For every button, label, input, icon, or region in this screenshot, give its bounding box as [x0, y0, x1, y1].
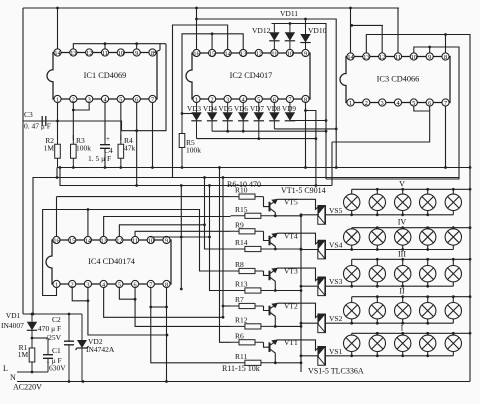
wire IC3 pin 9 stub [429, 47, 431, 53]
label VD1 part [1, 321, 24, 330]
lamp HIII1 [344, 266, 360, 282]
svg-text:VS5: VS5 [329, 206, 343, 215]
junction pin1 net C3 [56, 120, 59, 123]
label VD11 [280, 9, 298, 18]
junction lamp top bus [401, 226, 404, 229]
IC3 CD4066 quad switch [340, 53, 450, 107]
svg-text:11: 11 [132, 237, 138, 244]
wire VD8 bus [274, 128, 336, 130]
junction pin8 branch [304, 109, 307, 112]
svg-text:R6: R6 [235, 331, 244, 340]
wire lamp stub bottom [376, 211, 378, 215]
triac VS3 TLC336A [318, 277, 325, 296]
svg-text:VT1-5 C9014: VT1-5 C9014 [281, 186, 326, 195]
svg-text:1: 1 [349, 100, 352, 107]
junction lamp bottom bus [401, 322, 404, 325]
svg-text:470 μ F: 470 μ F [38, 324, 61, 333]
wire lamp stub bottom [452, 282, 454, 286]
label R15 [235, 205, 248, 214]
wire IC4 pin13 to R15 [104, 217, 231, 237]
wire lamp stub bottom [351, 319, 353, 323]
wire VS5 waist to common [301, 214, 319, 216]
svg-text:IC3 CD4066: IC3 CD4066 [377, 75, 420, 84]
label VS4 [329, 241, 343, 250]
svg-text:14: 14 [54, 50, 60, 57]
svg-text:13: 13 [363, 54, 369, 61]
wire tie extension [160, 43, 166, 45]
label VD1 [6, 311, 21, 320]
junction VD1 rail [31, 313, 34, 316]
wire row II top bus [352, 296, 470, 298]
diode VD11 [285, 24, 295, 50]
label VD4 [203, 105, 217, 113]
transistor VT5 C9014 [270, 199, 279, 213]
label R11 [235, 352, 247, 361]
label C2 voltage [46, 333, 62, 342]
wire lamp stub top [351, 297, 353, 303]
label group I [401, 323, 404, 332]
junction channel R6 bus yA [218, 166, 221, 169]
wire channel join R13 line [209, 186, 211, 238]
junction VS1 common vertical [300, 354, 303, 357]
wire lamp stub bottom [427, 211, 429, 215]
wire IC4 pin3 down right [88, 288, 167, 335]
wire lamp stub bottom [351, 211, 353, 215]
wire VS1 waist to common [301, 355, 319, 357]
wire stub x181 [180, 186, 182, 290]
wire IC1 pin2 to R3 [72, 103, 74, 141]
lamp HI1 [344, 335, 360, 351]
svg-text:10: 10 [287, 50, 293, 57]
junction VD10 lineP [304, 18, 307, 21]
svg-text:R13: R13 [235, 280, 248, 289]
junction row I right border [469, 332, 472, 335]
lamp HV3 [395, 194, 411, 210]
label R6-10 470 [227, 180, 261, 189]
resistor R15 10k [231, 213, 276, 218]
svg-text:V: V [399, 179, 405, 188]
wire lamp stub bottom [351, 352, 353, 356]
diode VD9 [285, 103, 295, 121]
wire lamp stub bottom [452, 245, 454, 249]
junction pin 11 tie [104, 42, 107, 45]
svg-text:15: 15 [209, 50, 215, 57]
junction pin8 N [165, 380, 168, 383]
junction pin 9 tie [135, 42, 138, 45]
svg-text:0. 47 μ F: 0. 47 μ F [24, 122, 51, 131]
label R6 [235, 331, 244, 340]
junction lamp top bus [426, 332, 429, 335]
wire branch to IC3 pin 12 [352, 25, 383, 53]
wire lamp stub bottom [402, 319, 404, 323]
lamp HI5 [445, 335, 461, 351]
wire lineP to right vertical [197, 19, 337, 168]
svg-text:5: 5 [257, 96, 260, 103]
junction lamp bottom bus [350, 322, 353, 325]
junction lamp top bus [426, 188, 429, 191]
svg-text:1. 5 μ F: 1. 5 μ F [88, 154, 111, 163]
svg-text:VD4: VD4 [203, 105, 217, 113]
label C4 plus [106, 135, 110, 143]
junction yB rail [32, 313, 35, 316]
junction x181 end [180, 288, 183, 291]
junction pin6 branch [135, 129, 138, 132]
label R14 [235, 238, 248, 247]
junction VD7 bus [257, 137, 260, 140]
wire IC3 pin 8 stub [445, 35, 447, 54]
svg-text:R10: R10 [235, 186, 248, 195]
wire channel vertical x223 [222, 178, 224, 318]
junction lamp bottom bus [426, 248, 429, 251]
svg-text:VD11: VD11 [280, 9, 298, 18]
svg-text:2: 2 [211, 96, 214, 103]
wire IC4 pin10 to R13 [151, 236, 231, 290]
junction VS3 common vertical [300, 285, 303, 288]
resistor R3 [71, 135, 77, 168]
wire lamp stub top [452, 259, 454, 265]
junction lamp top bus [401, 188, 404, 191]
wire top supply rail [23, 7, 399, 9]
svg-text:6: 6 [428, 100, 431, 107]
lamp HIV4 [420, 229, 436, 245]
label R5 value [186, 146, 201, 155]
diode VD8 [269, 103, 279, 129]
label R4 value [124, 144, 136, 153]
junction lamp bottom bus [426, 354, 429, 357]
label VD10 [308, 26, 327, 35]
svg-text:8: 8 [444, 54, 447, 61]
svg-text:2: 2 [71, 281, 74, 288]
junction VT3 common [300, 289, 303, 292]
label R5 [186, 138, 195, 147]
wire VT4 emitter to VS4 gate [278, 233, 320, 244]
label VT3 [284, 266, 298, 275]
svg-text:VS4: VS4 [329, 241, 343, 250]
svg-text:VD10: VD10 [308, 26, 327, 35]
wire IC4 pin7 to R11 [151, 288, 231, 363]
svg-text:7: 7 [151, 96, 154, 103]
label VT1 [284, 338, 298, 347]
label VS1 [329, 347, 343, 356]
lamp HI2 [369, 335, 385, 351]
capacitor C3 [36, 116, 52, 126]
wire lamp stub bottom [427, 245, 429, 249]
lamp HV1 [344, 194, 360, 210]
label VD2 part [86, 345, 115, 354]
wire VT2 lower lead to common [275, 317, 301, 327]
wire lamp stub top [402, 259, 404, 265]
junction top rail / IC1 pin14 [56, 7, 59, 10]
svg-text:3: 3 [381, 100, 384, 107]
label C3 [24, 110, 33, 119]
wire lamp stub top [351, 333, 353, 335]
wire VD4-VD5-VD6 bus [212, 130, 326, 132]
junction R7 feed [222, 305, 225, 308]
wire IC4 pin 1 feed R8 [43, 210, 231, 296]
junction channel R7 bus yB [222, 176, 225, 179]
wire C4 to ground bus [104, 155, 106, 168]
wire bus yC [60, 168, 332, 186]
wire lamp stub top [376, 297, 378, 303]
wire channel join R14 line [204, 178, 206, 225]
wire IC1 pins 13-8 tie [73, 44, 160, 50]
lamp HII5 [445, 303, 461, 319]
svg-text:9: 9 [165, 237, 168, 244]
wire VT1 lower lead to common [275, 353, 301, 363]
wire IC4 pin16 up [56, 197, 58, 237]
label VS1-5 TLC336A [308, 367, 364, 376]
wire VT1 emitter to VS1 gate [278, 340, 320, 350]
wire R7 to VT2 base [264, 306, 270, 311]
junction pin2-pin3 [87, 299, 90, 302]
wire IC4 pin8 to N [166, 288, 168, 382]
wire IC3 pins 5-6 bracket [414, 106, 430, 111]
junction VD5 bus [226, 130, 229, 133]
svg-text:100k: 100k [186, 146, 201, 155]
label VD8 [267, 105, 281, 113]
junction lamp bottom bus [426, 213, 429, 216]
lamp HII1 [344, 303, 360, 319]
lamp HIV5 [445, 229, 461, 245]
lamp HIV2 [369, 229, 385, 245]
svg-text:10: 10 [118, 50, 124, 57]
wire lamp stub top [402, 228, 404, 229]
wire IC3 pin 6 down left [332, 106, 430, 142]
svg-text:VS1-5 TLC336A: VS1-5 TLC336A [308, 367, 364, 376]
label R7 [235, 295, 244, 304]
junction R13 node [274, 289, 277, 292]
svg-text:2: 2 [365, 100, 368, 107]
junction yA right border [469, 166, 472, 169]
diode VD5 [222, 103, 232, 132]
wire pin6 branch up to tie [137, 44, 166, 131]
label VT1-5 C9014 [281, 186, 326, 195]
label group III [398, 249, 406, 258]
junction VT4 common [300, 248, 303, 251]
junction VD9 lineQ [325, 119, 328, 122]
lamp HII3 [395, 303, 411, 319]
wire L line [17, 371, 48, 373]
svg-text:1: 1 [55, 281, 58, 288]
svg-text:R14: R14 [235, 238, 248, 247]
junction channel yB2 [203, 176, 206, 179]
junction x181 pin10 line [180, 236, 183, 239]
resistor R9 470 [231, 229, 264, 234]
label VD3 [187, 105, 201, 113]
svg-text:VD6: VD6 [234, 105, 248, 113]
svg-text:13: 13 [101, 237, 107, 244]
op IC1 CD4069 hex inverter [47, 49, 157, 103]
junction bus4 [203, 223, 206, 226]
wire VT4 lower lead to common [275, 247, 301, 250]
lamp HIII2 [369, 266, 385, 282]
junction bus b2 right vertical [315, 137, 318, 140]
junction R14 node [274, 248, 277, 251]
svg-text:III: III [398, 249, 406, 258]
junction VT1 common [300, 361, 303, 364]
junction lamp top bus [452, 226, 455, 229]
svg-text:IC4 CD40174: IC4 CD40174 [88, 257, 136, 266]
wire lamp stub bottom [402, 211, 404, 215]
svg-text:IV: IV [398, 218, 407, 227]
wire pin8 branch right vertical [306, 111, 316, 186]
svg-text:10: 10 [148, 237, 154, 244]
junction IC2 pin16 top rail [195, 7, 198, 10]
wire IC1 area to IC2 pin 14 [173, 25, 228, 178]
label C1 voltage [49, 364, 66, 373]
label C2 [52, 315, 61, 324]
wire IC2 pin 15 stub [211, 34, 213, 50]
svg-text:IN4742A: IN4742A [86, 345, 115, 354]
wire N line [17, 381, 470, 383]
wire lamp stub bottom [452, 211, 454, 215]
wire lamp stub bottom [427, 352, 429, 356]
wire row V bottom bus to VS5 [325, 214, 453, 216]
junction VT2 common [300, 325, 303, 328]
wire top rail corner to IC3 pin 11 [398, 8, 399, 53]
svg-text:2: 2 [72, 96, 75, 103]
wire left border V+ rail [22, 8, 24, 314]
junction lamp top bus [401, 332, 404, 335]
junction lamp top bus [401, 258, 404, 261]
label R2 value [44, 144, 55, 153]
junction lineP branch [195, 18, 198, 21]
wire IC4 pin14 up [87, 210, 89, 237]
label L [3, 364, 8, 373]
junction R5 ground bus [181, 166, 184, 169]
svg-text:4: 4 [103, 96, 106, 103]
svg-text:11: 11 [395, 54, 401, 61]
lamp HV4 [420, 194, 436, 210]
wire ground bus yA [57, 167, 470, 169]
label group IV [398, 218, 407, 227]
label C4 value [88, 154, 111, 163]
wire IC2 pin 16 to top rail [196, 8, 198, 50]
svg-text:L: L [3, 364, 8, 373]
wire lamp stub top [427, 259, 429, 265]
wire VT3 lower lead to common [275, 281, 301, 290]
label group II [399, 287, 405, 296]
junction R1 L [31, 371, 34, 374]
junction lamp top bus [452, 258, 455, 261]
wire VD3-VD7 bus [197, 138, 316, 140]
svg-text:R7: R7 [235, 295, 244, 304]
wire R9 to VT4 base [264, 231, 270, 240]
lamp HIV1 [344, 229, 360, 245]
svg-text:R9: R9 [235, 220, 244, 229]
wire feed R7 [223, 305, 231, 307]
junction pin6 yC [135, 184, 138, 187]
wire row III top bus [352, 258, 470, 260]
wire feed R10 [57, 196, 231, 198]
wire VS3 waist to common [301, 285, 319, 287]
wire lamp stub top [402, 189, 404, 194]
wire C3 net [23, 121, 137, 131]
wire lamp stub top [376, 228, 378, 229]
wire to IC2 pin 13 [182, 34, 243, 114]
junction R12 node [274, 325, 277, 328]
wire lamp stub top [427, 189, 429, 194]
label R11-15 10k [222, 364, 260, 373]
diode VD6 [238, 103, 248, 132]
junction lamp top bus [452, 188, 455, 191]
junction R2 col yB [56, 176, 59, 179]
svg-text:7: 7 [149, 281, 152, 288]
label R3 value [76, 144, 91, 153]
junction IC2 pin 15 [211, 32, 214, 35]
wire R10 to VT5 base [264, 197, 270, 207]
resistor R10 470 [231, 194, 264, 199]
label R8 [235, 260, 244, 269]
svg-text:6: 6 [273, 96, 276, 103]
junction lamp bottom bus [376, 354, 379, 357]
wire pin7-pin8 connector [151, 306, 167, 308]
wire lamp stub bottom [452, 319, 454, 323]
junction pin14 vertical branch [350, 24, 353, 27]
transistor VT2 C9014 [270, 303, 279, 317]
junction pin3 line N column [166, 334, 169, 337]
diode VD3 [191, 103, 201, 139]
wire lamp stub bottom [351, 282, 353, 286]
junction pin7 connector [149, 306, 152, 309]
wire lamp stub top [376, 189, 378, 194]
junction VS5 common vertical [300, 213, 303, 216]
lamp HIII5 [445, 266, 461, 282]
svg-text:5: 5 [119, 96, 122, 103]
svg-text:VD12: VD12 [252, 26, 271, 35]
diode VD4 [207, 103, 217, 132]
junction IC3 pin7 ground bus [444, 166, 447, 169]
label C1 [52, 346, 61, 355]
wire VD10 top stub [305, 19, 307, 27]
svg-text:4: 4 [396, 100, 399, 107]
svg-text:10: 10 [411, 54, 417, 61]
svg-text:IN4007: IN4007 [1, 321, 24, 330]
junction lamp bottom bus [426, 322, 429, 325]
junction VS4 common vertical [300, 248, 303, 251]
resistor R1 1M [29, 338, 35, 372]
junction pin8 connector [165, 306, 168, 309]
junction pin5-pin6 [134, 298, 137, 301]
wire IC1 pin7 down [152, 103, 154, 168]
capacitor C1 1uF 630V [43, 338, 53, 372]
wire lamp stub bottom [402, 352, 404, 356]
junction lamp top bus [452, 295, 455, 298]
svg-text:C2: C2 [52, 315, 61, 324]
svg-text:6: 6 [134, 281, 137, 288]
junction C2 N [68, 380, 71, 383]
junction lamp top bus [426, 258, 429, 261]
wire lamp stub bottom [376, 245, 378, 249]
junction pin4 R7 feed [222, 316, 225, 319]
lamp HII4 [420, 303, 436, 319]
junction pin7 ground [151, 166, 154, 169]
wire lamp stub top [351, 228, 353, 229]
svg-text:5: 5 [412, 100, 415, 107]
svg-text:VD3: VD3 [187, 105, 201, 113]
svg-text:11: 11 [102, 50, 108, 57]
diode VD1 1N4007 [27, 314, 37, 338]
svg-text:15: 15 [69, 237, 75, 244]
label VD5 [219, 105, 233, 113]
junction VD6 bus [242, 130, 245, 133]
label R3 [76, 136, 85, 145]
label VS3 [329, 277, 343, 286]
wire IC3 pin 14 to top rail [350, 8, 352, 53]
resistor R12 10k [231, 324, 276, 329]
junction C4 ground [104, 166, 107, 169]
wire VS4 waist to common [301, 249, 319, 251]
